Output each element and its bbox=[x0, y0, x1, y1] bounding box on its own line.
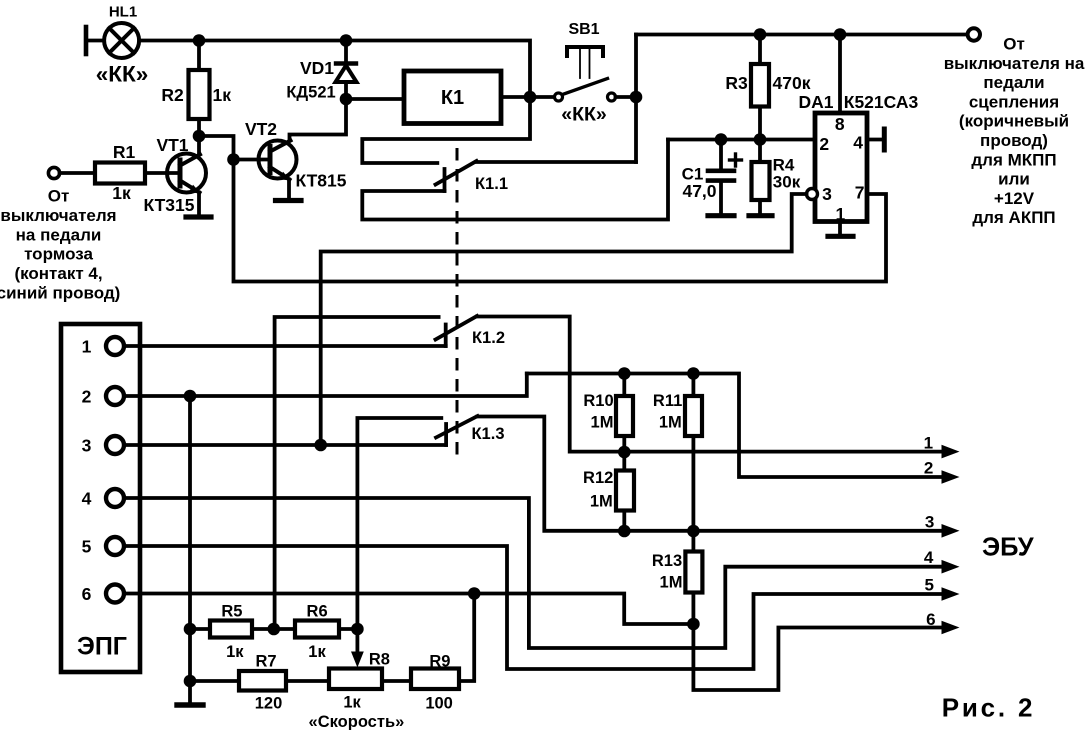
svg-text:VT1: VT1 bbox=[156, 135, 188, 155]
svg-text:От: От bbox=[1003, 35, 1025, 54]
wire terminal to HL1 bbox=[88, 39, 104, 43]
wire R6 right bbox=[339, 627, 357, 631]
wire ЭПГ pin5 to ЭБУ line 5 bbox=[124, 546, 944, 669]
svg-text:КТ815: КТ815 bbox=[295, 171, 346, 191]
connector ЭПГ box bbox=[61, 324, 140, 672]
potentiometer R8 bbox=[329, 669, 382, 690]
svg-text:R6: R6 bbox=[307, 603, 328, 621]
wire R2 bottom to VT1 collector node bbox=[197, 119, 201, 136]
svg-text:6: 6 bbox=[926, 610, 935, 629]
wire VT1 collector node to VT2 base and DA1 pin7 bbox=[199, 136, 886, 282]
wire K1.1 arm to SB1 vertical bbox=[477, 160, 637, 164]
resistor R6 bbox=[295, 621, 339, 638]
node: rail / DA1 pin8 bbox=[834, 28, 847, 41]
wire R5 left bbox=[190, 627, 210, 631]
connector ЭПГ pin 3 bbox=[106, 436, 124, 454]
resistor R11 bbox=[685, 374, 702, 532]
svg-text:R13: R13 bbox=[652, 552, 682, 570]
node: pin3 / DA1 pin3 net bbox=[314, 439, 327, 452]
svg-text:«КК»: «КК» bbox=[561, 104, 607, 126]
svg-text:провод): провод) bbox=[980, 131, 1048, 150]
connector ЭПГ pin 5 bbox=[106, 537, 124, 555]
svg-text:6: 6 bbox=[82, 584, 92, 604]
svg-text:470к: 470к bbox=[773, 73, 811, 93]
svg-text:R11: R11 bbox=[653, 392, 682, 410]
svg-text:2: 2 bbox=[819, 134, 829, 154]
svg-text:на педали: на педали bbox=[16, 225, 102, 244]
svg-text:КД521: КД521 bbox=[286, 84, 335, 102]
svg-text:1к: 1к bbox=[213, 85, 232, 105]
wire ЭПГ pin3 to K1.3 arm bbox=[124, 443, 446, 447]
svg-text:R12: R12 bbox=[583, 469, 613, 487]
svg-text:R1: R1 bbox=[113, 142, 136, 162]
svg-text:1М: 1М bbox=[660, 574, 683, 592]
arrow head 3 bbox=[942, 524, 960, 538]
svg-text:тормоза: тормоза bbox=[24, 245, 93, 264]
transistor VT2 bbox=[259, 99, 347, 198]
svg-text:(контакт 4,: (контакт 4, bbox=[14, 264, 102, 283]
svg-text:выключателя: выключателя bbox=[0, 206, 116, 225]
node: R6/K1.3/R8 wiper junction bbox=[351, 623, 364, 636]
svg-text:для АКПП: для АКПП bbox=[972, 208, 1055, 227]
svg-text:К1.3: К1.3 bbox=[471, 425, 504, 443]
wire ЭПГ pin6 to R13 bottom node bbox=[124, 594, 693, 625]
wire top-right rail bbox=[636, 33, 967, 37]
resistor R13 bbox=[685, 531, 702, 624]
svg-text:2: 2 bbox=[82, 386, 92, 406]
relay contact K1.2 upper contact and feed to R5/R6 junction bbox=[275, 317, 439, 629]
svg-text:1к: 1к bbox=[343, 694, 361, 712]
resistor R7 bbox=[239, 671, 286, 691]
connector ЭПГ pin 2 bbox=[106, 387, 124, 405]
node: R13 bottom / pin6 net bbox=[687, 618, 700, 631]
ground (VT2 emitter) bbox=[276, 198, 302, 203]
wire R3 bottom bbox=[758, 107, 762, 140]
wire SB1 right bbox=[616, 95, 637, 99]
svg-text:К521СА3: К521СА3 bbox=[844, 92, 919, 112]
svg-text:выключателя на: выключателя на bbox=[944, 54, 1085, 73]
node: VT2 base tap bbox=[227, 153, 240, 166]
connector ЭПГ pin 4 bbox=[106, 489, 124, 507]
resistor R2 bbox=[189, 70, 210, 119]
svg-text:R8: R8 bbox=[369, 651, 390, 669]
wire vertical SB1 node to K1.1 arm bbox=[634, 35, 638, 163]
svg-text:1М: 1М bbox=[590, 493, 613, 511]
svg-text:синий провод): синий провод) bbox=[0, 284, 120, 303]
C1 plus sign bbox=[730, 154, 742, 166]
svg-text:DA1: DA1 bbox=[798, 92, 833, 112]
wire R8-R9 bbox=[382, 679, 411, 683]
ground (DA1 pin1) bbox=[828, 234, 853, 239]
wire VD1 to K1 bbox=[346, 97, 404, 101]
wire DA1 pin8 bbox=[838, 35, 842, 114]
wire K1.1 lower contact to C1 rail bbox=[362, 140, 668, 220]
svg-text:3: 3 bbox=[82, 435, 92, 455]
node: VD1 anode / K1 left bbox=[340, 93, 353, 106]
arrow head 2 bbox=[942, 470, 960, 484]
resistor R5 bbox=[210, 621, 252, 638]
svg-text:педали: педали bbox=[983, 73, 1044, 92]
svg-text:К1: К1 bbox=[441, 87, 464, 109]
note: clutch switch text bbox=[944, 35, 1085, 228]
terminal circle (clutch switch) bbox=[968, 28, 980, 40]
wire R2 top bbox=[197, 41, 201, 71]
wire R1 to VT1 base bbox=[145, 171, 180, 175]
relay contact K1.1 arm bbox=[436, 161, 477, 191]
svg-text:2: 2 bbox=[924, 459, 933, 478]
node: C1 top bbox=[715, 133, 728, 146]
wire K1.3 arm to ЭБУ line 3 bbox=[478, 417, 945, 531]
capacitor C1 bbox=[708, 140, 734, 214]
wire R7-R8 bbox=[286, 679, 329, 683]
R8 wiper arrow bbox=[351, 629, 364, 668]
svg-text:1к: 1к bbox=[226, 643, 244, 661]
svg-text:1к: 1к bbox=[112, 183, 131, 203]
node: pin6 / R9 junction bbox=[468, 587, 481, 600]
wire ЭПГ pin1 to K1.2 arm bbox=[124, 344, 446, 348]
svg-text:К1.2: К1.2 bbox=[472, 329, 505, 347]
svg-text:R9: R9 bbox=[429, 653, 450, 671]
resistor R9 bbox=[411, 669, 459, 690]
DA1 pin 1 ground stub bbox=[838, 222, 842, 234]
svg-text:1: 1 bbox=[924, 434, 933, 453]
svg-text:VT2: VT2 bbox=[245, 119, 277, 139]
svg-text:От: От bbox=[48, 187, 70, 206]
svg-text:3: 3 bbox=[925, 513, 934, 532]
note: brake switch text bbox=[0, 187, 120, 303]
svg-text:47,0: 47,0 bbox=[682, 181, 716, 201]
connector ЭПГ pin 1 bbox=[106, 337, 124, 355]
svg-text:ЭБУ: ЭБУ bbox=[982, 534, 1035, 562]
switch SB1 bbox=[555, 47, 616, 101]
svg-text:1М: 1М bbox=[591, 414, 614, 432]
svg-text:R7: R7 bbox=[255, 653, 276, 671]
resistor R12 bbox=[616, 452, 634, 531]
svg-text:сцепления: сцепления bbox=[969, 92, 1059, 111]
relay contact K1.2 arm bbox=[436, 316, 478, 346]
node: R5/R6/K1.2 junction bbox=[268, 623, 281, 636]
relay contact K1.1 upper feed bbox=[362, 97, 530, 163]
wire K1 right to SB1 bbox=[501, 95, 554, 99]
mechanical link (dashed) bbox=[456, 148, 459, 459]
svg-text:SB1: SB1 bbox=[568, 21, 599, 38]
svg-text:3: 3 bbox=[822, 184, 832, 204]
ground (R4) bbox=[749, 213, 772, 218]
svg-text:4: 4 bbox=[82, 488, 92, 508]
svg-text:(коричневый: (коричневый bbox=[959, 112, 1069, 131]
svg-text:4: 4 bbox=[924, 548, 934, 567]
svg-text:1М: 1М bbox=[659, 414, 682, 432]
node: line1 / R10 bottom bbox=[618, 446, 631, 459]
wire R10/R11 top rail to ЭБУ line 2 bbox=[527, 374, 944, 478]
svg-text:7: 7 bbox=[855, 183, 865, 203]
svg-text:R5: R5 bbox=[221, 603, 242, 621]
svg-text:VD1: VD1 bbox=[300, 58, 334, 78]
svg-text:120: 120 bbox=[255, 695, 283, 713]
svg-text:«КК»: «КК» bbox=[96, 62, 149, 87]
svg-text:R3: R3 bbox=[725, 73, 748, 93]
svg-text:5: 5 bbox=[82, 536, 92, 556]
svg-text:«Скорость»: «Скорость» bbox=[309, 713, 405, 730]
wire top-left rail (HL1 to K1 right junction) bbox=[139, 41, 530, 98]
node: top rail / R2 junction bbox=[193, 34, 206, 47]
node: line3 / R12 bottom bbox=[618, 525, 631, 538]
terminal circle (brake switch input) bbox=[48, 167, 59, 178]
svg-text:1: 1 bbox=[82, 336, 92, 356]
relay coil K1 bbox=[404, 71, 501, 124]
arrow head 6 bbox=[942, 621, 960, 635]
node: rail / R11 bbox=[687, 367, 700, 380]
diode VD1 bbox=[336, 41, 357, 100]
node: SB1 right junction bbox=[630, 91, 643, 104]
wire ground net (pin2 to bottom ground) bbox=[188, 396, 192, 703]
svg-text:R2: R2 bbox=[161, 85, 184, 105]
svg-text:+12V: +12V bbox=[994, 189, 1035, 208]
ground (VT1 emitter) bbox=[186, 214, 211, 219]
wire input terminal to R1 bbox=[60, 171, 95, 175]
op-amp DA1 К521СА3 box bbox=[815, 113, 867, 222]
wire to VT2 base bbox=[234, 158, 271, 162]
wire K1.2 arm to ЭБУ line 1 bbox=[477, 317, 944, 452]
ground (C1) bbox=[708, 213, 734, 218]
wire R9 right to pin6 rail bbox=[459, 594, 474, 682]
wire DA1 pin3 to EPG pin3 net bbox=[321, 194, 807, 445]
svg-text:HL1: HL1 bbox=[109, 4, 137, 21]
node: ground net / R7 left bbox=[184, 675, 197, 688]
node: pin2 / ground net junction bbox=[184, 390, 197, 403]
svg-text:100: 100 bbox=[425, 695, 453, 713]
svg-text:К1.1: К1.1 bbox=[475, 175, 508, 193]
ground (bottom left) bbox=[177, 702, 203, 707]
lamp HL1 bbox=[104, 23, 139, 58]
svg-text:КТ315: КТ315 bbox=[143, 195, 194, 215]
node: rail / R3 bbox=[754, 28, 767, 41]
svg-text:Рис. 2: Рис. 2 bbox=[942, 693, 1036, 723]
terminal bar (lamp HL1 left terminal) bbox=[84, 27, 89, 54]
node: rail / R10 bbox=[618, 367, 631, 380]
svg-text:или: или bbox=[998, 170, 1030, 189]
node: R3/R4 junction bbox=[754, 133, 767, 146]
wire R3 top bbox=[758, 35, 762, 65]
node: line3 / R13 top bbox=[687, 525, 700, 538]
relay contact K1.3 arm bbox=[436, 416, 478, 445]
svg-text:R10: R10 bbox=[583, 392, 613, 410]
resistor R3 bbox=[751, 64, 769, 107]
wire R5-R6 bbox=[252, 627, 295, 631]
svg-text:4: 4 bbox=[853, 133, 863, 153]
DA1 pin 4 stub with T-bar bbox=[867, 129, 884, 150]
svg-text:30к: 30к bbox=[773, 173, 801, 192]
relay contact K1.3 upper contact and feed to R6/R8 junction bbox=[357, 418, 441, 629]
connector ЭПГ pin 6 bbox=[106, 585, 124, 603]
transistor VT1 bbox=[167, 136, 206, 215]
DA1 pin 3 inversion circle bbox=[807, 189, 818, 200]
wire C1/R4/DA1-pin2 rail bbox=[668, 138, 815, 142]
resistor R4 bbox=[752, 140, 770, 214]
svg-text:ЭПГ: ЭПГ bbox=[77, 633, 127, 661]
arrow head 4 bbox=[942, 560, 960, 574]
wire R13 bottom node to ЭБУ line 6 bbox=[693, 624, 944, 690]
node: top rail / VD1 junction bbox=[340, 34, 353, 47]
wire ЭПГ pin4 to ЭБУ line 4 bbox=[124, 498, 944, 648]
wire ЭПГ pin2 to R10/R11 rail bbox=[124, 374, 527, 397]
resistor R1 bbox=[95, 163, 145, 184]
arrow head 1 bbox=[942, 445, 960, 459]
svg-text:для МКПП: для МКПП bbox=[971, 150, 1056, 169]
resistor R10 bbox=[616, 374, 633, 453]
node: K1 right / top rail junction bbox=[524, 91, 537, 104]
svg-text:1к: 1к bbox=[308, 643, 326, 661]
node: R2 / VT1 collector / VT2 base net bbox=[193, 130, 206, 143]
arrow head 5 bbox=[942, 587, 960, 601]
svg-text:5: 5 bbox=[924, 576, 933, 595]
wire R7 left bbox=[190, 679, 239, 683]
node: ground net / R5 left bbox=[184, 623, 197, 636]
svg-text:8: 8 bbox=[835, 114, 845, 134]
